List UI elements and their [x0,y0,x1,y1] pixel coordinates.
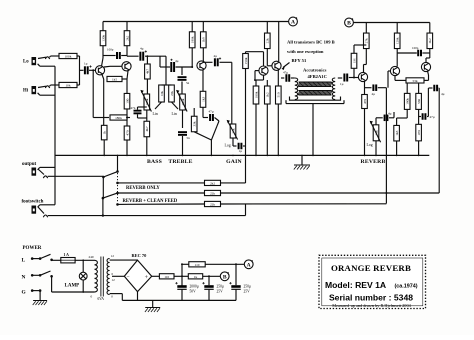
transistor Q4 BC109 [259,66,268,75]
svg-text:120k: 120k [396,37,400,44]
svg-text:1k: 1k [194,275,198,279]
wire secondary top to rectifier [110,259,138,261]
gain pot 25k Log [230,124,236,138]
transistor Q2 BC109 [122,62,131,71]
resistor 180k (Q3 base bias) [189,32,195,48]
svg-text:REVERB: REVERB [361,159,386,165]
reverb pot 10k Log [375,118,377,125]
resistor 22k feed 1 [205,190,221,195]
wire feedback 180k branch [92,70,94,117]
wire pole2 common to footswitch bus [102,177,104,198]
svg-text:with one exception: with one exception [287,49,324,54]
svg-text:All transistors BC 109 B: All transistors BC 109 B [287,40,335,45]
svg-text:2000µ: 2000µ [190,285,199,289]
wire fuse to transformer [75,259,94,261]
svg-text:A: A [291,20,295,26]
svg-text:Lin: Lin [172,112,177,116]
svg-text:25V: 25V [217,289,224,293]
wire Q3 collector out [202,61,204,62]
svg-text:1µ: 1µ [84,62,88,66]
capacitor 4u to Q3 base [160,66,170,68]
wire Hi jack to 10k [38,86,46,87]
wire output jack to switch [38,169,44,175]
svg-text:100p: 100p [107,48,114,52]
svg-text:1k3: 1k3 [395,130,399,135]
svg-text:LAMP: LAMP [65,283,80,288]
capacitor 5n treble [181,67,183,75]
resistor 100k driver [255,80,257,86]
wire tank output [338,77,342,79]
wire N to transformer [51,276,53,292]
resistor 22k feed 2 [205,201,221,206]
wire output jack ground link [38,167,40,169]
svg-text:1k9: 1k9 [202,37,206,42]
svg-text:2k2: 2k2 [210,181,215,185]
capacitor 5n treble lower [178,131,187,133]
switch blade N [40,271,50,275]
resistor 22k (Q5 base) [266,22,268,34]
wire clean feed line [118,192,205,194]
svg-text:47n: 47n [131,106,136,110]
resistor 1k to B [188,274,202,279]
lamp [82,260,84,272]
wire footswitch bus [38,207,44,214]
svg-text:Lo: Lo [23,60,29,65]
capacitor 250u 25V first [202,282,204,284]
svg-text:N: N [22,274,26,280]
svg-text:4µ: 4µ [214,54,218,58]
resistor 22k treble stack [169,85,175,102]
capacitor 4u coupling [139,52,141,61]
svg-text:100k: 100k [65,55,72,59]
svg-text:BASS: BASS [147,159,162,165]
transformer secondary [107,259,110,295]
wire V junction to ground rail [215,118,220,122]
terminal B (top) [345,18,354,27]
svg-text:110: 110 [195,263,200,267]
transistor Q8 BC109 [421,62,430,71]
capacitor 250u 25V second [229,282,231,284]
wire output feed down [438,88,440,193]
capacitor 100p feedback [103,55,116,57]
wire input mix node [79,56,81,85]
capacitor 4u reverb pot top [376,117,383,119]
resistor 100k input Lo [59,53,77,58]
svg-text:1µ: 1µ [340,82,344,86]
wire Q1 collector to Q2 base [102,56,104,59]
wire reverb-only line [118,182,205,184]
wire Q2 emitter [127,71,128,79]
svg-text:10k: 10k [65,84,70,88]
terminal B (psu) [220,272,229,281]
svg-text:1k3: 1k3 [201,96,205,101]
svg-text:150k: 150k [244,57,248,64]
resistor 1k3 recovery [394,125,400,141]
wire Q7 base stub [388,70,390,72]
resistor 560 recovery [418,83,420,94]
svg-text:output: output [22,162,37,167]
svg-text:B: B [223,274,227,280]
resistor 10k treble stack [159,85,165,102]
wire lower feed [118,203,205,205]
ground symbol mains [33,300,47,302]
svg-text:REVERB ONLY: REVERB ONLY [126,186,160,191]
svg-text:47µ: 47µ [283,71,288,75]
svg-text:47µ: 47µ [209,110,214,114]
svg-text:100p: 100p [412,46,419,50]
wire Q4 base stub [255,70,259,72]
resistor 2k2 (Q8 collector) [429,23,431,34]
wire 33k diagonal to junction [194,132,211,140]
wire tank to ground rail [312,104,314,156]
svg-text:POWER: POWER [23,246,42,251]
wire Q6 emitter [364,81,366,94]
bridge rectifier REC70 [124,260,151,292]
terminal A (psu) [244,260,253,269]
fuse 1A [51,259,53,262]
top supply rail A [103,21,288,23]
svg-text:Lin: Lin [153,112,158,116]
transistor Q3 BC109 [197,61,206,70]
switch blade L [40,254,50,258]
svg-text:5n: 5n [187,136,191,140]
svg-text:12: 12 [111,254,115,258]
svg-text:Measured-up and drawn by R.Hje: Measured-up and drawn by R.Hjelmsett 200… [332,303,411,308]
resistor 27k (Q6 collector) [365,23,367,34]
svg-text:4µ: 4µ [441,92,445,96]
svg-text:22k: 22k [170,91,174,96]
svg-text:1M: 1M [352,58,356,63]
ground symbol psu [152,300,154,307]
wire Q4 emitter to resistors [256,79,264,81]
wire bus to feed node [245,204,247,216]
switch pole 1 [102,176,105,179]
wire 180k bottom to 1k3 [406,109,408,118]
resistor 33k [193,108,195,116]
svg-text:5n: 5n [186,81,190,85]
title box border [319,255,426,308]
svg-text:470: 470 [125,130,129,135]
svg-text:footswitch: footswitch [22,200,44,205]
resistor 130k (Q1 collector) [102,22,104,32]
svg-text:2k2: 2k2 [125,35,129,40]
switch gang dashed link [117,173,119,203]
capacitor 100p (Q7-Q8) [397,52,417,54]
svg-text:2k2: 2k2 [428,38,432,43]
wire switch to rail [117,155,119,171]
svg-text:47µ: 47µ [430,115,435,119]
capacitor 1u gain [233,145,237,147]
transistor Q7 BC109 [390,66,399,75]
svg-text:27k: 27k [365,38,369,43]
svg-text:250µ: 250µ [217,285,224,289]
wire mix bus vertical [385,88,387,204]
wire Q3 emitter [202,70,204,91]
transistor Q5 BFY51 [272,61,281,70]
resistor 10k input Hi [59,82,77,87]
svg-text:470: 470 [363,99,367,104]
wire tone node down [165,56,167,85]
wire psu node vertical [181,264,183,285]
reverb tank output coil [332,78,335,100]
svg-text:22k: 22k [210,203,215,207]
svg-text:12: 12 [112,278,116,282]
reverb tank springs [298,82,331,95]
svg-text:180k: 180k [406,98,410,105]
resistor 180k feedback [110,115,127,120]
wire rectifier minus down [137,292,139,301]
svg-text:53k: 53k [412,79,417,83]
wire Q7 emitter to 53k [394,76,396,81]
wire stack bottoms [155,102,162,109]
svg-text:50V: 50V [190,289,197,293]
transformer core [100,257,102,297]
resistor 2k2 reverb-only [205,180,221,185]
resistor 110 to A [182,263,189,265]
resistor 4k7 bass lower [144,121,150,137]
switch pole 2 [102,197,105,200]
capacitor 2000u 50V [175,282,177,284]
svg-text:180k: 180k [115,116,122,120]
svg-text:4µ: 4µ [372,92,376,96]
transistor Q1 BC109 [102,58,104,66]
resistor 1k (Q1 emitter) [101,125,107,140]
resistor 180k recovery [406,83,408,94]
svg-text:4µ: 4µ [388,112,392,116]
svg-text:4µ: 4µ [175,59,179,63]
svg-text:0: 0 [91,295,93,299]
resistor 1k2 driver [266,80,268,86]
wire 150k bottom to gain node [245,69,247,184]
svg-text:250µ: 250µ [244,285,251,289]
capacitor 4u output [429,87,433,89]
svg-text:25V: 25V [244,289,251,293]
capacitor 47u recovery bypass [419,116,421,118]
wire Q1 emitter [102,75,104,80]
svg-text:Serial number : 5348: Serial number : 5348 [329,293,413,303]
svg-text:1 A: 1 A [64,253,70,257]
wire footswitch jack ground link [38,205,40,208]
transformer primary [95,260,98,292]
ground symbol center [301,155,303,165]
resistor 110 psu [159,274,174,279]
wire 53k to Q8 emitter [424,79,429,81]
svg-text:4k7: 4k7 [146,69,150,74]
treble pot 100k Lin [180,94,186,110]
svg-text:BFY 51: BFY 51 [292,58,307,63]
capacitor 1u input coupling [84,66,86,74]
resistor 120k (Q7) [396,23,398,34]
terminal A (top) [289,17,298,26]
resistor 1M (Q6 base bias) [354,44,366,46]
capacitor 47n bass [134,110,142,112]
svg-text:22k: 22k [266,38,270,43]
svg-text:1k: 1k [103,131,107,135]
wire secondary CT to rectifier [112,275,124,277]
wire G to ground [39,291,41,301]
capacitor 47u reverb drive [281,77,284,79]
svg-text:100k: 100k [254,91,258,98]
resistor 1k9 (Q3 collector) [202,22,204,32]
reverb tank input coil [295,78,298,100]
svg-text:22k: 22k [210,192,215,196]
resistor 53k [406,78,424,83]
svg-text:560: 560 [417,99,421,104]
svg-text:L: L [22,257,26,263]
psu bottom rail [122,299,236,301]
svg-text:240: 240 [89,255,94,259]
bass pot 100k Lin [144,94,150,110]
svg-text:Accutronics: Accutronics [303,68,327,73]
svg-text:REVERB + CLEAN FEED: REVERB + CLEAN FEED [123,199,178,204]
svg-text:(ca.1974): (ca.1974) [395,284,418,290]
resistor 510 driver [277,70,279,86]
svg-text:Log: Log [225,144,231,148]
svg-text:ORANGE REVERB: ORANGE REVERB [331,263,411,273]
arrow note to Q5 [283,63,290,68]
capacitor 4u reverb pot feed [365,87,372,89]
capacitor 4u Q3 out [214,58,216,66]
svg-text:4FB2A1C: 4FB2A1C [308,74,327,79]
capacitor 47u Q3 bypass [209,114,211,121]
capacitor 1u reverb return [343,74,345,82]
wire secondary bottom [110,293,123,295]
resistor 470 recovery [416,124,422,141]
svg-text:470: 470 [417,130,421,135]
svg-text:GAIN: GAIN [226,159,242,165]
svg-text:+: + [145,274,149,281]
svg-text:1k2: 1k2 [266,92,270,97]
svg-text:510: 510 [277,92,281,97]
wire rail to Q5 collector [278,22,280,62]
svg-text:B: B [347,21,351,27]
wire rectifier plus out [152,275,160,277]
resistor 4k7 (tone) [146,56,148,64]
transistor Q6 BC109 [358,72,367,81]
resistor 100 (Q2 emitter) [124,93,130,109]
resistor 1k3 (Q3 emitter) [200,91,206,107]
svg-text:110: 110 [164,275,169,279]
reverb tank base plate [290,97,341,101]
svg-text:100: 100 [125,98,129,103]
wire 180k top-drop [191,22,193,32]
svg-text:−: − [126,275,129,281]
resistor 150k feedback driver [243,54,249,69]
svg-text:Model: REV 1A: Model: REV 1A [325,280,386,290]
svg-text:33k: 33k [193,121,197,126]
resistor 1k5 feedback [107,76,122,81]
svg-text:REC 70: REC 70 [132,253,148,258]
svg-text:1k5: 1k5 [112,78,117,82]
wire 560 bottom [418,109,420,124]
svg-text:180k: 180k [191,36,195,43]
svg-text:4k7: 4k7 [145,126,149,131]
svg-text:A: A [247,262,251,268]
svg-text:1µ: 1µ [239,149,243,153]
svg-text:TREBLE: TREBLE [168,159,192,165]
ground bus rail [55,154,429,156]
svg-text:130k: 130k [101,35,105,42]
svg-text:10k: 10k [160,91,164,96]
wire Q2 collector out [127,55,139,57]
resistor 470 (Q6 emitter) [362,95,368,109]
resistor 2k2 (Q2 collector) [126,22,128,32]
wire Lo jack to 100k [38,57,46,58]
resistor 470 (Q2 emitter lower) [124,126,130,140]
svg-text:Log: Log [367,143,373,147]
svg-text:6VA: 6VA [98,297,105,301]
svg-text:4µ: 4µ [140,47,144,51]
wire jack grounds to bus [38,64,40,66]
top supply rail B [354,22,430,24]
svg-text:Hi: Hi [23,89,29,94]
